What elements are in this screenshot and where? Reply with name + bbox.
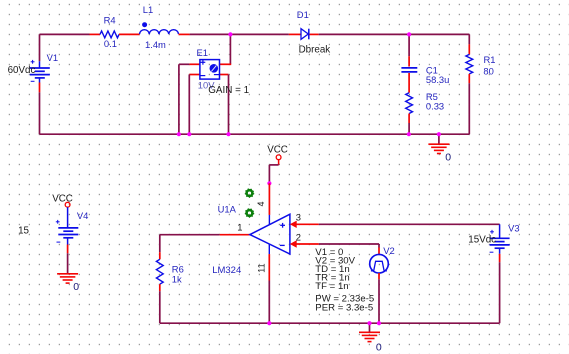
V3 minus mark [490, 251, 494, 253]
svg-text:TF = 1n: TF = 1n [315, 281, 348, 292]
wire E1 in+ down [178, 64, 180, 134]
ground 0 top circuit [428, 144, 449, 153]
pin stub E1 out+ [220, 63, 232, 65]
svg-text:LM324: LM324 [212, 265, 241, 276]
V3 plus mark [490, 230, 494, 234]
wire bottom rail top circuit [40, 133, 470, 135]
pin 4 inner [268, 215, 270, 225]
wire V3 to bottom rail [499, 262, 501, 323]
wire to ground lower circuit [369, 323, 371, 332]
resistor R4 [100, 31, 119, 38]
wire R1 to bottom rail [468, 83, 470, 134]
pin stub R6 bottom [159, 284, 161, 291]
no-connect marker upper green ring [245, 189, 253, 197]
resistor R1 [466, 54, 473, 74]
wire R5 to bottom rail [408, 123, 410, 134]
inductor L1 [140, 30, 179, 34]
svg-text:0.1: 0.1 [104, 38, 117, 49]
svg-text:1k: 1k [172, 274, 182, 285]
pin V4 bottom [67, 238, 69, 245]
pin stub op-amp pin 11 [268, 254, 270, 280]
svg-text:0: 0 [445, 151, 451, 163]
wire pin 3 to V3 [319, 223, 500, 225]
V1 minus mark [31, 80, 35, 82]
svg-text:R4: R4 [104, 14, 116, 25]
pin stub R1 bottom [468, 74, 470, 83]
pin stub C1 top [408, 56, 410, 66]
pin V1 minus [39, 78, 41, 83]
pin 3 arrow stub [290, 221, 319, 228]
op-amp - input mark [280, 244, 285, 246]
pin stub V1 bottom [39, 83, 41, 93]
pin stub VCC op-amp [278, 160, 280, 165]
junction VCC pin 4 [267, 181, 271, 185]
pin stub R1 top [468, 44, 470, 54]
pin 2 arrow stub [290, 240, 319, 247]
pin 11 inner [268, 244, 270, 254]
diode D1 [301, 29, 309, 40]
svg-text:V1: V1 [47, 52, 58, 63]
pin stub E1 out- [220, 74, 229, 76]
junction bottom rail ground [367, 321, 371, 325]
pin stub op-amp pin 4 [268, 183, 270, 215]
L1 polarity dot [142, 22, 147, 27]
V-source V2 pulse circle [370, 254, 389, 273]
pin stub R4-L1 [119, 33, 140, 35]
wire VCC down to pin 4 [268, 165, 270, 183]
pin stub V2 bottom [378, 273, 380, 279]
V4 minus mark [57, 241, 61, 243]
pin stub op-amp output pin 1 [220, 234, 250, 236]
resistor R6 [156, 259, 163, 284]
wire bottom rail lower circuit [160, 322, 500, 324]
V-source V3 battery [490, 238, 510, 248]
op-amp + input mark [280, 223, 285, 228]
capacitor C1 [401, 68, 417, 72]
resistor R5 [406, 93, 413, 114]
svg-text:V4: V4 [77, 210, 88, 221]
pin stub R4 left [90, 33, 101, 35]
wire E1 out- to bottom rail [228, 75, 230, 135]
svg-text:Dbreak: Dbreak [299, 44, 331, 55]
svg-text:R1: R1 [484, 54, 496, 65]
no-connect marker lower green ring [245, 209, 253, 217]
svg-text:GAIN = 1: GAIN = 1 [208, 85, 249, 96]
pin stub D1 left [289, 33, 301, 35]
V-source V4 battery [58, 228, 78, 238]
svg-text:0: 0 [73, 281, 79, 293]
pin stub R6 top [159, 252, 161, 259]
pin stub E1 in+ [189, 63, 200, 65]
junction bottom rail ground [437, 132, 441, 136]
pin V1 plus [39, 61, 41, 68]
wire L1 to D1 [190, 33, 289, 35]
wire E1 in+ left [179, 63, 190, 65]
pin V4 top [67, 207, 69, 228]
power symbol VCC op-amp circle [276, 155, 281, 160]
controlled source E1 (VCVS) [200, 60, 220, 80]
wire to ground top circuit [438, 134, 440, 144]
pin stub V4 bottom [67, 245, 69, 254]
wire pin 11 to bottom rail [268, 281, 270, 324]
pin stub L1 right [179, 33, 190, 35]
junction bottom rail R5 [407, 132, 411, 136]
svg-text:E1: E1 [197, 47, 208, 58]
pin stub C1-R5 [408, 73, 410, 93]
svg-text:V2: V2 [383, 245, 394, 256]
pin stub E1 in- [189, 74, 200, 76]
ground 0 lower circuit [359, 332, 380, 341]
svg-text:0: 0 [376, 342, 382, 354]
pin V3 top [499, 224, 501, 238]
ground 0 left [57, 274, 78, 283]
wire V1 to bottom rail [39, 92, 41, 134]
svg-text:58.3u: 58.3u [426, 74, 449, 85]
svg-text:1: 1 [237, 221, 242, 232]
wire V2 to bottom rail [378, 279, 380, 323]
wire top rail to C1 [408, 34, 410, 56]
wire op-amp out to R6 [160, 234, 220, 236]
V-source V1 battery [30, 68, 50, 78]
svg-text:3: 3 [296, 211, 301, 222]
svg-text:15Vdc: 15Vdc [468, 234, 496, 245]
pin stub D1 right [310, 33, 319, 35]
wire R6 to bottom rail [159, 291, 161, 323]
svg-text:PER = 3.3e-5: PER = 3.3e-5 [315, 303, 373, 314]
svg-text:0.33: 0.33 [426, 101, 444, 112]
junction bottom rail E1 in+ [177, 132, 181, 136]
pin stub V3 bottom [499, 254, 501, 262]
wire V1 top [39, 34, 41, 61]
wire V4 to ground [67, 253, 69, 273]
wire R6 top [159, 235, 161, 253]
svg-text:15: 15 [18, 225, 29, 236]
wire top rail V1 to R4 [40, 33, 90, 35]
V1 plus mark [31, 60, 35, 64]
svg-text:U1A: U1A [218, 203, 237, 214]
wire VCC horizontal [269, 164, 278, 166]
junction bottom rail pin 11 [267, 321, 271, 325]
pin V3 bottom [499, 248, 501, 254]
svg-text:4: 4 [256, 201, 266, 206]
svg-text:60Vdc: 60Vdc [8, 65, 36, 76]
wire pin 2 to V2 [319, 243, 379, 245]
svg-text:1.4m: 1.4m [145, 39, 166, 50]
V2 parameter text block [315, 247, 374, 313]
power symbol VCC left circle [65, 202, 70, 207]
svg-text:VCC: VCC [267, 145, 288, 156]
wire R1 top [468, 34, 470, 44]
wire V2 top [378, 244, 380, 248]
svg-text:80: 80 [483, 65, 493, 76]
wire D1 to R1 corner [319, 33, 470, 35]
junction bottom rail E1 out- [226, 132, 230, 136]
junction bottom rail V2 [377, 321, 381, 325]
junction top rail E1 [228, 32, 232, 36]
op-amp U1A triangle [250, 214, 290, 254]
wire top rail to E1 out+ [229, 34, 231, 64]
V4 plus mark [56, 220, 60, 224]
svg-text:L1: L1 [143, 4, 153, 15]
wire E1 in- down [188, 75, 190, 135]
junction bottom rail E1 in- [187, 132, 191, 136]
svg-text:V3: V3 [508, 222, 519, 233]
svg-text:D1: D1 [297, 9, 309, 20]
svg-text:11: 11 [256, 263, 266, 272]
pin stub V2 top [378, 248, 380, 255]
svg-text:2: 2 [296, 232, 301, 243]
junction top rail C1 [407, 32, 411, 36]
pin stub R5 bottom [408, 114, 410, 124]
